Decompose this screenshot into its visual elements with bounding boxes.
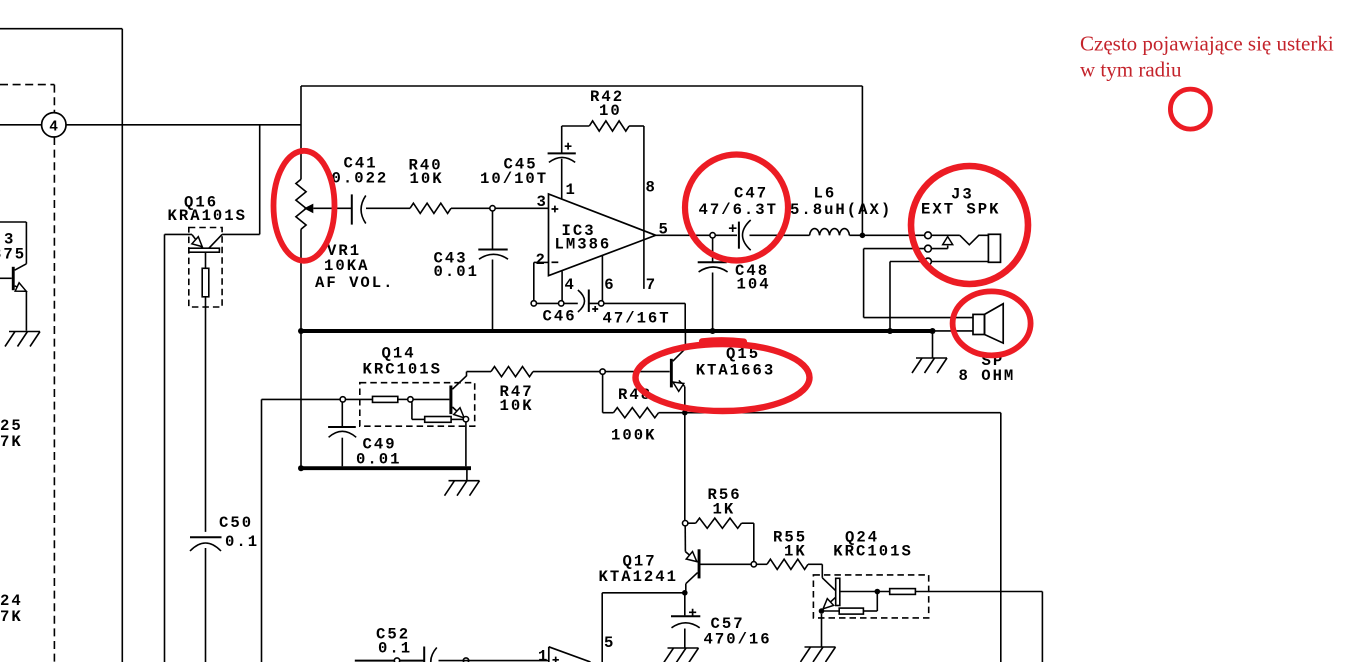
wire: [222, 233, 260, 235]
svg-text:L6: L6: [814, 185, 837, 203]
svg-text:1: 1: [538, 648, 549, 662]
wire: [355, 660, 424, 662]
wire: [1000, 413, 1002, 662]
resistor R42 10: [562, 125, 590, 127]
junction: [930, 328, 936, 334]
wire: [864, 317, 973, 319]
svg-text:10K: 10K: [410, 170, 444, 188]
node: [394, 658, 399, 662]
node: [710, 233, 715, 238]
svg-text:3: 3: [537, 193, 548, 211]
power bus 2: [301, 466, 471, 470]
wire: [750, 234, 810, 236]
inductor L6 5.8uH(AX): [810, 229, 850, 236]
wire: [685, 412, 1001, 414]
wire: [890, 261, 924, 263]
wire: [300, 86, 302, 179]
wire: [861, 86, 863, 235]
wire: [261, 399, 263, 662]
wire: [933, 330, 974, 332]
svg-text:7K: 7K: [0, 433, 23, 451]
transistor Q16 KRA101S: [189, 228, 222, 308]
svg-text:C50: C50: [219, 514, 253, 532]
resistor R55 1K: [757, 563, 768, 565]
wire: [495, 207, 548, 209]
svg-text:KTA1241: KTA1241: [599, 568, 679, 586]
junction: [298, 328, 304, 334]
ground: [932, 333, 934, 358]
wire: [537, 302, 578, 304]
svg-text:1K: 1K: [784, 543, 807, 561]
wire: [205, 548, 207, 662]
ground: [805, 646, 836, 648]
node 4: [42, 113, 66, 137]
wire: [701, 563, 752, 565]
svg-text:0.1: 0.1: [225, 533, 259, 551]
ground: [9, 331, 40, 333]
pin 1: [561, 159, 563, 200]
dashed boundary: [53, 85, 55, 113]
wire: [863, 249, 865, 318]
wire: [684, 333, 686, 349]
wire: [605, 371, 669, 373]
svg-text:47/6.3T: 47/6.3T: [699, 201, 779, 219]
svg-text:6: 6: [604, 276, 615, 294]
wire: [164, 234, 166, 662]
ground: [668, 647, 699, 649]
wire: [313, 207, 352, 209]
svg-text:EXT SPK: EXT SPK: [921, 200, 1001, 218]
wire: [165, 233, 193, 235]
wire: [685, 584, 687, 593]
node: [463, 658, 468, 662]
junction: [860, 233, 866, 239]
resistor R56 1K: [688, 522, 696, 524]
svg-text:10: 10: [599, 102, 622, 120]
wire: [589, 302, 685, 304]
wire: [602, 592, 685, 594]
junction: [887, 328, 893, 334]
wire: [1041, 592, 1043, 662]
capacitor C43 0.01: [478, 249, 507, 251]
svg-text:C46: C46: [543, 307, 577, 325]
pin 8 / pin 7 wire: [643, 126, 645, 289]
capacitor C46 47/16T: [578, 290, 585, 312]
wire: [864, 248, 925, 250]
wire: [66, 124, 301, 126]
transistor Q15 KTA1663: [670, 359, 673, 388]
ground: [466, 470, 468, 481]
dashed boundary: [0, 84, 54, 86]
pin 5 wire: [656, 234, 737, 236]
node: [600, 369, 605, 374]
wire: [259, 125, 261, 235]
wire: [889, 262, 891, 331]
wire: [821, 614, 823, 647]
wire: [466, 372, 468, 377]
resistor R47 10K: [467, 371, 492, 373]
wire: [601, 593, 603, 662]
svg-text:1K: 1K: [713, 500, 736, 518]
svg-text:4: 4: [49, 119, 58, 135]
svg-text:w tym radiu: w tym radiu: [1080, 58, 1182, 82]
svg-text:1: 1: [566, 181, 577, 199]
wire: [684, 526, 686, 552]
red ellipse Q15: [636, 344, 810, 411]
svg-text:470/16: 470/16: [704, 631, 772, 649]
pin 6: [601, 255, 603, 300]
svg-text:8 OHM: 8 OHM: [959, 367, 1016, 385]
svg-text:KRC101S: KRC101S: [833, 543, 913, 561]
capacitor C49 0.01: [341, 402, 343, 426]
wire: [561, 126, 563, 153]
wire: [465, 422, 467, 466]
svg-text:10K: 10K: [500, 397, 534, 415]
red circle J3: [911, 166, 1028, 284]
transistor Q..875 (partial): [0, 221, 26, 223]
svg-text:0.01: 0.01: [356, 451, 401, 469]
wire: [915, 591, 1042, 593]
op-amp IC3 LM386: [549, 194, 656, 276]
dashed boundary: [53, 137, 55, 662]
svg-text:8: 8: [646, 179, 657, 197]
transistor Q24 KRC101S: [813, 575, 928, 618]
op-amp (partial): [548, 647, 550, 662]
svg-text:7: 7: [646, 276, 657, 294]
wire: [492, 211, 494, 249]
wire: [121, 29, 123, 662]
wire: [849, 234, 924, 236]
junction: [710, 328, 716, 334]
capacitor C41 0.022: [351, 194, 353, 224]
svg-text:2: 2: [536, 251, 547, 269]
potentiometer VR1 10KA AF VOL: [296, 179, 306, 229]
wire: [492, 260, 494, 330]
connector J3 EXT SPK: [925, 232, 932, 239]
red circle C47: [685, 155, 788, 261]
speaker SP 8 OHM: [973, 314, 985, 334]
red circle speaker: [953, 291, 1031, 355]
svg-text:100K: 100K: [611, 426, 656, 444]
wire: [205, 297, 207, 532]
svg-text:5.8uH(AX): 5.8uH(AX): [790, 201, 892, 219]
node: [751, 562, 756, 567]
svg-text:KRC101S: KRC101S: [363, 361, 443, 379]
wire: [684, 387, 686, 413]
wire: [0, 124, 42, 126]
wire: [0, 28, 122, 30]
junction: [682, 590, 688, 596]
svg-text:10KA: 10KA: [324, 257, 369, 275]
resistor R40 10K: [410, 203, 451, 213]
svg-text:47/16T: 47/16T: [603, 310, 671, 328]
transistor Q14 KRC101S: [360, 383, 475, 427]
wire: [301, 85, 862, 87]
node: [490, 206, 495, 211]
transistor Q17 KTA1241: [685, 552, 697, 562]
svg-text:7K: 7K: [0, 608, 23, 626]
junction: [682, 410, 688, 416]
wire: [366, 207, 410, 209]
wire: [684, 303, 686, 329]
capacitor C48 104: [712, 238, 714, 262]
svg-text:0.022: 0.022: [332, 170, 389, 188]
node: [683, 521, 688, 526]
svg-text:5: 5: [604, 634, 615, 652]
capacitor C47 47/6.3T: [738, 222, 740, 249]
resistor R48 100K: [603, 412, 614, 414]
svg-text:4: 4: [565, 276, 576, 294]
svg-text:5: 5: [659, 221, 670, 239]
capacitor C45 10/10T: [548, 152, 576, 154]
wire: [684, 415, 686, 521]
ground bus: [301, 329, 933, 333]
capacitor C52 0.1: [423, 647, 425, 662]
svg-text:AF VOL.: AF VOL.: [315, 274, 395, 292]
node: [531, 301, 536, 306]
svg-text:10/10T: 10/10T: [480, 170, 548, 188]
pin 2: [534, 261, 549, 263]
wire: [300, 229, 302, 331]
svg-text:C47: C47: [734, 185, 768, 203]
svg-text:0.1: 0.1: [378, 639, 412, 657]
capacitor C57 470/16: [684, 593, 686, 616]
svg-text:104: 104: [737, 275, 771, 293]
wire: [300, 333, 302, 466]
svg-text:0.01: 0.01: [434, 263, 479, 281]
wire: [262, 398, 341, 400]
svg-text:Często pojawiające się usterki: Często pojawiające się usterki: [1080, 32, 1334, 56]
svg-text:KRA101S: KRA101S: [168, 207, 248, 225]
wire: [451, 207, 490, 209]
svg-text:KTA1663: KTA1663: [696, 361, 776, 379]
pin 4: [561, 271, 563, 301]
wire: [439, 660, 549, 662]
svg-text:LM386: LM386: [555, 235, 612, 253]
wire: [602, 374, 604, 412]
red ellipse VR1: [274, 151, 335, 261]
svg-text:875: 875: [0, 246, 26, 264]
capacitor C50 0.1: [190, 536, 222, 538]
red circle note: [1170, 89, 1210, 129]
